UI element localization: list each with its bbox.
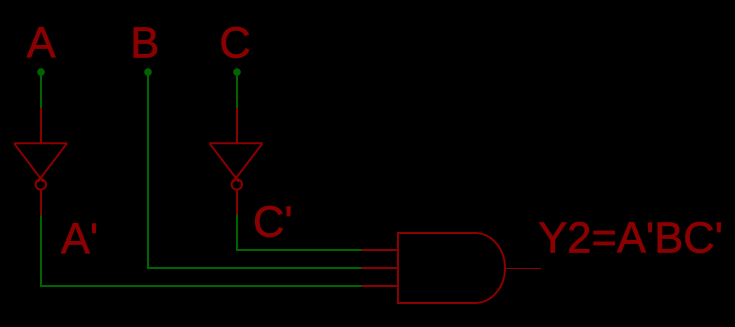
inverter U2 input pin [236,108,238,143]
svg-text:Y2=A'BC': Y2=A'BC' [538,215,723,263]
inverter U1 output pin [40,190,42,216]
inverter U1 input pin [40,108,42,143]
inverter U2 inversion bubble [232,179,242,189]
svg-text:A: A [27,19,56,67]
AND gate U3 input pin 1 (C') [362,249,399,251]
node A terminal dot [37,68,45,76]
AND gate U3 input pin 2 (B) [362,267,399,269]
wire A to inverter U1 input [40,72,42,108]
svg-text:C: C [219,19,250,67]
svg-text:A': A' [61,216,98,264]
inverter U1 (NOT gate on A) [14,108,67,216]
wire A' from U1 output to AND gate bottom input [41,216,362,287]
AND gate U3 output pin [505,268,541,270]
svg-text:B: B [130,20,159,68]
inverter U2 triangle [210,143,263,182]
inverter U1 inversion bubble [36,179,46,189]
AND gate U3 [362,233,506,303]
AND gate U3 body [398,233,505,303]
node B terminal dot [144,68,152,76]
svg-text:C': C' [253,199,293,247]
AND gate U3 input pin 3 (A') [362,285,399,287]
inverter U2 output pin [236,190,238,215]
inverter U1 triangle [14,143,67,182]
node C terminal dot [233,68,241,76]
inverter U2 (NOT gate on C) [210,108,263,215]
wire B to AND gate middle input [148,72,362,268]
wire C to inverter U2 input [236,72,238,108]
wire C' from U2 output to AND gate top input [237,215,362,251]
